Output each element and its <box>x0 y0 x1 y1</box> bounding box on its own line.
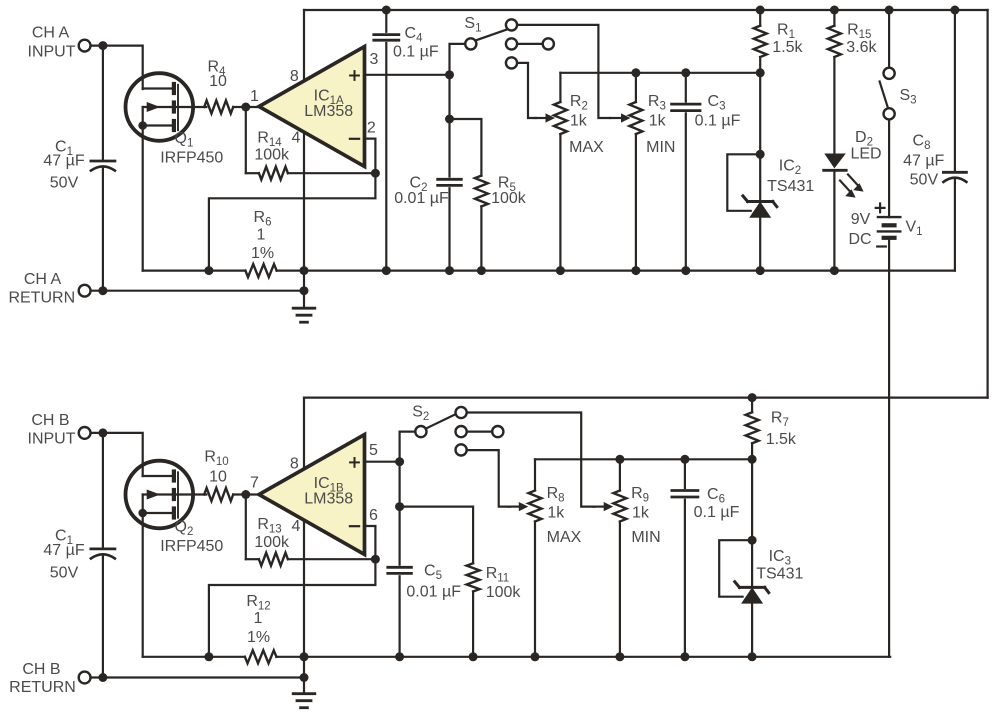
svg-text:7: 7 <box>250 475 259 492</box>
wire: R15 to D2 <box>833 57 835 154</box>
capacitor C4 0.1uF <box>374 35 399 41</box>
svg-text:47 µF: 47 µF <box>43 542 84 559</box>
wire: S1 throw1 to R3 wiper <box>517 25 610 118</box>
capacitor C1 (channel B) 47uF 50V <box>91 549 115 559</box>
resistor R11 100k <box>467 563 480 591</box>
wire: CH B ground rail right <box>276 656 890 658</box>
svg-text:2: 2 <box>367 120 376 137</box>
label: C2 0.01uF <box>394 175 449 208</box>
wire: C4 top lead <box>385 10 387 32</box>
svg-text:Q1: Q1 <box>175 130 194 150</box>
label: R1 1.5k <box>772 22 803 56</box>
svg-text:0.1 µF: 0.1 µF <box>393 44 439 61</box>
node: R8 at CH B ground rail <box>531 652 540 661</box>
svg-text:Q2: Q2 <box>175 518 194 538</box>
node: C3 at control wire <box>681 68 690 77</box>
node: C8 at +V rail <box>950 6 959 15</box>
switch S3 <box>880 68 895 120</box>
node: R2 at ground rail <box>556 266 565 275</box>
wire: R11 bottom lead <box>472 592 474 657</box>
wire: C4 bottom lead <box>385 43 387 271</box>
resistor R7 1.5k <box>746 412 759 443</box>
switch S1 throw 1 <box>506 19 517 30</box>
svg-text:R3: R3 <box>648 93 666 113</box>
wire: pin 2 to feedback node <box>365 139 376 174</box>
svg-text:S3: S3 <box>900 87 917 107</box>
svg-text:MIN: MIN <box>631 529 660 546</box>
node: R9 at control wire <box>615 455 624 464</box>
LED D2 <box>824 154 864 198</box>
svg-text:C3: C3 <box>708 93 726 113</box>
svg-text:8: 8 <box>290 455 299 472</box>
svg-text:CH B: CH B <box>22 661 60 678</box>
potentiometer R8 1k <box>529 491 542 522</box>
capacitor C2 0.01uF <box>438 179 462 185</box>
svg-text:C4: C4 <box>405 25 424 45</box>
resistor R14 100k <box>259 167 288 180</box>
node: feedback at CH B ground rail <box>204 652 213 661</box>
label: D2 LED <box>850 129 881 163</box>
svg-text:4: 4 <box>292 518 301 535</box>
shunt regulator IC2 TS431 <box>727 150 777 275</box>
resistor R5 100k <box>475 176 488 207</box>
node: R9 at CH B ground rail <box>615 652 624 661</box>
svg-text:R10: R10 <box>204 449 228 469</box>
wire: ground stem A <box>303 271 305 309</box>
label: R12 1 1% <box>246 593 270 646</box>
svg-text:TS431: TS431 <box>756 566 803 583</box>
wire: S2 node down to C5 <box>399 462 401 565</box>
node: op-amp A output node (pin 1) <box>241 103 250 112</box>
capacitor C6 0.1uF <box>672 491 698 498</box>
label: pin 5 <box>369 442 378 459</box>
svg-text:47 µF: 47 µF <box>43 153 84 170</box>
wire: R2 bottom lead <box>559 134 561 271</box>
svg-text:10: 10 <box>209 469 227 486</box>
svg-text:1.5k: 1.5k <box>766 431 797 448</box>
svg-text:IRFP450: IRFP450 <box>160 538 223 555</box>
label: pin 4 (B) <box>292 518 301 535</box>
node: pin4 line at CH B ground rail <box>300 652 309 661</box>
label: R13 100k <box>254 516 290 551</box>
node: R5 tap <box>445 115 454 124</box>
node: op-amp B output node (pin 7) <box>241 490 250 499</box>
resistor R13 100k <box>259 553 288 566</box>
wire: R4 to op-amp output node <box>233 106 259 108</box>
wire: S2 throw3 to R8 wiper <box>467 450 510 507</box>
wire: S2 pole to pin5 node <box>400 432 415 462</box>
label: CH B RETURN <box>9 661 76 696</box>
wire: pin 5 to S2 node <box>365 461 400 463</box>
wire: R1 bottom lead <box>759 57 761 73</box>
switch S2 pole <box>415 414 456 438</box>
node: R1 at +V rail <box>756 6 765 15</box>
resistor R12 1 1% <box>245 650 277 663</box>
svg-text:3: 3 <box>370 51 379 68</box>
node: R5 at ground rail <box>477 266 486 275</box>
wire: CH A input to Q1 drain <box>91 46 143 89</box>
wiper arrow of R8 <box>508 502 528 511</box>
wire: IC1B pin8/pin4 supply line <box>303 398 305 657</box>
node: feedback at ground rail <box>204 266 213 275</box>
label: C8 47uF 50V <box>903 132 944 188</box>
svg-text:0.1 µF: 0.1 µF <box>694 504 740 521</box>
node: R11 at CH B ground rail <box>469 652 478 661</box>
label: S1 <box>464 15 481 35</box>
svg-text:LM358: LM358 <box>304 103 353 120</box>
label: pin 1 <box>250 88 259 105</box>
svg-text:100k: 100k <box>254 534 290 551</box>
wire: C1b bottom lead <box>102 555 104 677</box>
node: pin4 line at ground rail <box>300 266 309 275</box>
label: pin 4 <box>292 129 301 146</box>
label: V1 <box>906 219 923 239</box>
wire: ground stem B <box>303 657 305 694</box>
wire: R9 top lead <box>619 459 621 490</box>
resistor R6 1 1% <box>245 264 276 277</box>
wire: control node down to IC2 <box>759 73 761 155</box>
svg-text:1k: 1k <box>547 504 565 521</box>
switch S1 throw 2b <box>543 38 554 49</box>
svg-text:100k: 100k <box>491 190 527 207</box>
label: pin 2 <box>367 120 376 137</box>
svg-text:R8: R8 <box>547 485 565 505</box>
svg-text:1: 1 <box>254 610 263 627</box>
transistor Q2 IRFP450 <box>126 461 207 529</box>
svg-text:C5: C5 <box>424 562 442 582</box>
label: R2 1k MAX <box>569 93 604 156</box>
terminal: CH A RETURN <box>79 285 91 297</box>
wire: R5 top lead <box>450 119 482 176</box>
svg-text:1%: 1% <box>251 245 274 262</box>
label: CH A RETURN <box>8 271 75 306</box>
potentiometer R9 1k <box>613 491 626 522</box>
svg-text:0.01 µF: 0.01 µF <box>394 190 449 207</box>
svg-text:6: 6 <box>369 507 378 524</box>
wire: R1 top lead <box>759 10 761 26</box>
svg-text:1k: 1k <box>570 112 588 129</box>
wire: pin 3 to S1 node <box>365 74 450 76</box>
switch S2 throw 2b <box>492 426 503 437</box>
resistor R10 10 <box>204 488 233 501</box>
wiper arrow of R9 <box>593 502 613 511</box>
node: junction at CH A input <box>98 41 107 50</box>
wire: R15 top lead <box>833 10 835 26</box>
svg-text:5: 5 <box>369 442 378 459</box>
node: R15 at +V rail <box>830 6 839 15</box>
label: pin 8 (B) <box>290 455 299 472</box>
node: C6 at control wire <box>680 455 689 464</box>
resistor R1 1.5k <box>754 26 767 57</box>
svg-text:3.6k: 3.6k <box>846 39 877 56</box>
wire: Q1 source to ground rail <box>142 126 144 271</box>
label: CH B INPUT <box>28 412 76 448</box>
wire: R9 bottom lead <box>619 522 621 657</box>
op-amp U1A (IC1A LM358) <box>259 47 365 167</box>
node: R7 at control wire <box>748 455 757 464</box>
svg-text:MAX: MAX <box>547 529 582 546</box>
svg-text:C8: C8 <box>913 132 931 152</box>
label: IC3 TS431 <box>756 548 803 583</box>
label: pin 6 <box>369 507 378 524</box>
wiper arrow of R2 <box>535 113 555 122</box>
wire: CH A ground rail left <box>143 270 246 272</box>
label: IC1B LM358 <box>304 475 353 507</box>
svg-text:CH B: CH B <box>31 412 69 429</box>
label: S3 <box>900 87 917 107</box>
wire: R11 top lead <box>400 507 474 564</box>
wire: R3 top lead <box>635 73 637 102</box>
svg-text:MIN: MIN <box>646 139 675 156</box>
svg-text:C6: C6 <box>707 486 725 506</box>
wire: R10 to op-amp output node <box>233 493 259 495</box>
node: C3 at ground rail <box>681 266 690 275</box>
svg-text:1.5k: 1.5k <box>772 39 803 56</box>
switch S2 throw 2 <box>456 426 493 437</box>
svg-text:R11: R11 <box>486 565 510 585</box>
svg-text:1: 1 <box>250 88 259 105</box>
switch S2 throw 1 <box>456 407 467 418</box>
wire: C6 bottom lead <box>684 500 686 657</box>
svg-text:INPUT: INPUT <box>28 43 76 60</box>
node: C6 at CH B ground rail <box>680 652 689 661</box>
wire: S3 to battery + <box>888 120 890 218</box>
label: IC2 TS431 <box>767 158 814 196</box>
capacitor C8 47uF 50V <box>943 172 966 182</box>
node: D2 at ground rail <box>830 266 839 275</box>
label: R6 1 1% <box>251 209 274 262</box>
label: R4 10 <box>208 59 227 91</box>
svg-text:MAX: MAX <box>569 139 604 156</box>
wire: CH B supply rail <box>304 397 988 399</box>
label: S2 <box>412 404 429 424</box>
label: pin 8 <box>290 68 299 85</box>
label: R9 1k MIN <box>631 485 661 546</box>
wire: battery negative down to CH B ground rail <box>888 238 890 657</box>
node: return/ground junction <box>300 286 309 295</box>
svg-text:TS431: TS431 <box>767 178 814 195</box>
svg-text:S1: S1 <box>464 15 481 35</box>
capacitor C1 (channel A) 47uF 50V <box>91 161 115 171</box>
wire: feedback node down-left to ground rail <box>209 173 376 270</box>
svg-text:CH A: CH A <box>24 271 62 288</box>
wire: R13 right lead <box>288 558 376 560</box>
svg-text:1k: 1k <box>632 504 650 521</box>
svg-text:100k: 100k <box>486 584 522 601</box>
node: pin3/S1 junction <box>445 70 454 79</box>
svg-text:1%: 1% <box>247 629 270 646</box>
node: R1 at control wire <box>756 68 765 77</box>
wire: R7 bottom lead <box>751 443 753 459</box>
wire: Q2 source to ground rail <box>142 513 144 657</box>
svg-text:R9: R9 <box>631 485 649 505</box>
wiper arrow of R3 <box>611 113 631 122</box>
wire: R2 top lead <box>559 73 561 102</box>
svg-text:CH A: CH A <box>32 25 70 42</box>
node: C2 at ground rail <box>445 266 454 275</box>
wire: node7 down to R13 <box>245 495 247 560</box>
wire: R8 bottom lead <box>534 522 536 657</box>
svg-text:4: 4 <box>292 129 301 146</box>
op-amp U1B (IC1B LM358) <box>259 435 365 555</box>
label: pin 7 <box>250 475 259 492</box>
node: S3 at +V rail <box>885 6 894 15</box>
label: Q2 IRFP450 <box>160 518 223 555</box>
svg-text:RETURN: RETURN <box>9 679 76 696</box>
svg-text:10: 10 <box>209 73 227 90</box>
svg-text:IRFP450: IRFP450 <box>160 150 223 167</box>
svg-text:R13: R13 <box>257 516 281 536</box>
svg-text:0.01 µF: 0.01 µF <box>406 583 461 600</box>
svg-text:R7: R7 <box>771 410 789 430</box>
wire: control node down to IC3 <box>751 459 753 540</box>
wire: pin 6 to feedback node <box>365 526 376 559</box>
resistor R15 3.6k <box>828 26 841 57</box>
resistor R4 10 <box>204 101 233 114</box>
wire: rail to S3 <box>888 10 890 68</box>
svg-text:S2: S2 <box>412 404 429 424</box>
wire: CH B ground rail left <box>143 656 245 658</box>
label: R7 1.5k <box>766 410 797 449</box>
label: R11 100k <box>486 565 522 601</box>
svg-text:DC: DC <box>848 231 871 248</box>
label: C5 0.01uF <box>406 562 461 600</box>
switch S1 throw 3 <box>506 57 517 68</box>
wire: C1a top lead <box>102 46 104 160</box>
node: pin5/S2 junction <box>395 457 404 466</box>
node: R7 at CH B supply rail <box>748 393 757 402</box>
label: C4 0.1uF <box>393 25 439 60</box>
label: C1 47uF 50V (A) <box>43 139 84 192</box>
label: 9V DC <box>848 211 871 248</box>
wire: R14 right lead <box>288 172 376 174</box>
label: R5 100k <box>491 175 527 208</box>
wire: C2 bottom lead <box>448 188 450 270</box>
shunt regulator IC3 TS431 <box>719 536 769 662</box>
label: R8 1k MAX <box>547 485 582 546</box>
wire: control node wire (R2/R3/C3/R1) <box>560 72 760 74</box>
terminal: CH B INPUT <box>79 427 91 439</box>
wire: C8 top lead <box>954 10 956 171</box>
wire: R8 top lead <box>534 459 536 490</box>
svg-text:LM358: LM358 <box>304 491 353 508</box>
wire: C3 bottom lead <box>685 113 687 270</box>
wire: R14 left lead <box>246 172 259 174</box>
node: junction at CH B input <box>98 428 107 437</box>
wire: CH A return line <box>91 290 304 292</box>
svg-text:R2: R2 <box>570 93 588 113</box>
label: C1 47uF 50V (B) <box>43 528 84 582</box>
node: C4 at ground rail <box>382 266 391 275</box>
node: C4 at +V rail <box>382 6 391 15</box>
switch S2 throw 3 <box>456 444 467 455</box>
label: C6 0.1uF <box>694 486 740 521</box>
svg-text:INPUT: INPUT <box>28 431 76 448</box>
svg-text:IC2: IC2 <box>779 158 801 178</box>
label: pin 3 <box>370 51 379 68</box>
svg-text:V1: V1 <box>906 219 923 239</box>
wire: IC1 pin8/pin4 supply line <box>303 10 305 271</box>
terminal: CH B RETURN <box>79 672 91 684</box>
wire: D2 to ground rail <box>833 170 835 270</box>
svg-text:50V: 50V <box>910 172 939 189</box>
wire: C1b top lead <box>102 433 104 548</box>
capacitor C5 0.01uF <box>388 567 412 573</box>
label: IC1A LM358 <box>304 88 353 120</box>
svg-text:RETURN: RETURN <box>8 289 75 306</box>
node: R13 / pin6 junction <box>371 555 380 564</box>
wire: C1a bottom lead <box>102 167 104 291</box>
terminal: CH A INPUT <box>79 40 91 52</box>
wire: CH A ground rail right <box>277 270 955 272</box>
wire: R3 bottom lead <box>635 134 637 271</box>
wire: S1 pole to pin3 node <box>450 44 465 75</box>
node: R14 / pin2 junction <box>371 169 380 178</box>
wire: R7 top lead <box>751 398 753 413</box>
node: R3 at control wire <box>631 68 640 77</box>
node: C1b at return line <box>98 673 107 682</box>
svg-text:9V: 9V <box>851 211 871 228</box>
svg-text:LED: LED <box>850 146 881 163</box>
svg-text:50V: 50V <box>50 174 79 191</box>
node: C5 at CH B ground rail <box>395 652 404 661</box>
wire: CH B input to Q2 drain <box>91 433 143 476</box>
wire: R5 bottom lead <box>480 206 482 270</box>
label: R3 1k MIN <box>646 93 675 156</box>
wire: feedback node down-left to CH B ground rail <box>209 559 376 657</box>
ground symbol (channel B) <box>293 694 315 708</box>
wire: R13 left lead <box>246 558 259 560</box>
wire: S1 throw3 to R2 wiper <box>517 63 536 118</box>
svg-text:8: 8 <box>290 68 299 85</box>
node: return/ground junction B <box>300 673 309 682</box>
wire: C3 top lead <box>685 73 687 102</box>
svg-text:47 µF: 47 µF <box>903 152 944 169</box>
label: R15 3.6k <box>846 22 877 56</box>
switch S1 throw 2 <box>506 38 543 49</box>
battery V1 9V DC <box>876 204 901 247</box>
node: C1a at return line <box>98 286 107 295</box>
label: Q1 IRFP450 <box>160 130 223 167</box>
wire: S2 throw1 to R9 wiper <box>467 413 595 507</box>
label: C3 0.1uF <box>695 93 741 129</box>
wire: +V supply rail (top) <box>304 9 988 11</box>
node: R3 at ground rail <box>631 266 640 275</box>
wire: C5 bottom lead <box>399 576 401 657</box>
potentiometer R3 1k <box>629 102 642 134</box>
wire: C8 bottom lead <box>954 178 956 270</box>
switch S1 pole <box>465 30 506 50</box>
svg-text:1k: 1k <box>649 112 667 129</box>
label: R10 10 <box>204 449 228 486</box>
svg-text:0.1 µF: 0.1 µF <box>695 112 741 129</box>
wire: control node wire (R8/R9/C6/R7) <box>535 458 752 460</box>
node: R11 tap <box>395 502 404 511</box>
wire: node1 down to R14 <box>245 107 247 173</box>
svg-text:100k: 100k <box>254 146 290 163</box>
capacitor C3 0.1uF <box>672 104 700 111</box>
svg-text:1: 1 <box>257 227 266 244</box>
wire: right edge from +V rail down to CH B supply rail <box>986 10 988 398</box>
potentiometer R2 1k <box>554 102 567 134</box>
wire: C6 top lead <box>684 459 686 488</box>
svg-text:50V: 50V <box>50 564 79 581</box>
label: CH A INPUT <box>28 25 76 61</box>
ground symbol (channel A) <box>293 308 315 322</box>
wire: S1 node down to C2 <box>448 75 450 177</box>
wire: CH B return line <box>91 676 304 678</box>
transistor Q1 IRFP450 <box>126 73 207 141</box>
